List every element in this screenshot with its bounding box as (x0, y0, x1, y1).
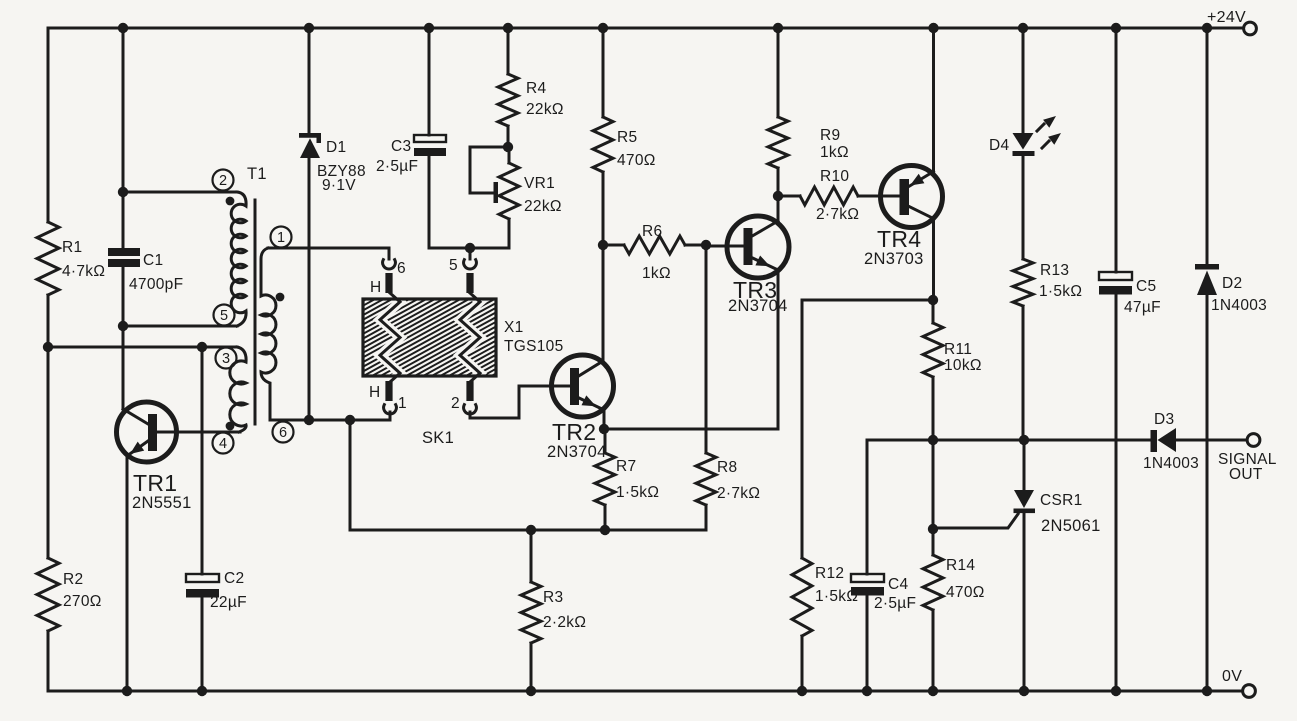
transistor TR1 (117, 402, 192, 512)
svg-text:CSR1: CSR1 (1040, 492, 1083, 509)
wire TR3 emitter (777, 270, 780, 429)
wire C4 to 0V (866, 595, 869, 691)
wire left vertical top (47, 28, 50, 222)
node C1 top rail junction (118, 23, 128, 33)
wire pin5 branch (123, 325, 237, 328)
pin label 3 (circled) (216, 348, 237, 369)
wire rail to C5 (1115, 28, 1118, 272)
svg-text:4700pF: 4700pF (129, 276, 183, 293)
node R5 rail junction (598, 23, 608, 33)
svg-text:R9: R9 (820, 127, 840, 144)
wire R5 to node (602, 172, 605, 245)
node R4-VR1 junction (503, 142, 513, 152)
phase dot winding 2-5 (226, 197, 235, 206)
node D1 rail junction (304, 23, 314, 33)
wire rail to R5 (602, 28, 605, 117)
node CSR1 anode junction (1019, 435, 1029, 445)
resistor R13 (1013, 259, 1082, 440)
wire rail to D4 (1022, 28, 1025, 134)
socket SK1 label (422, 429, 454, 447)
svg-text:OUT: OUT (1229, 466, 1263, 483)
svg-text:R1: R1 (62, 239, 82, 256)
node R7 bottom junction (600, 525, 610, 535)
capacitor C2 (186, 570, 247, 611)
wire pin1 node drop (349, 420, 352, 530)
svg-text:D4: D4 (989, 137, 1009, 154)
node sensor pin5 junction (465, 243, 475, 253)
svg-text:22kΩ: 22kΩ (524, 198, 562, 215)
svg-text:SK1: SK1 (422, 429, 454, 447)
transformer T1 core (254, 200, 257, 424)
svg-text:1·5kΩ: 1·5kΩ (616, 484, 659, 501)
node R3 rail junction (526, 686, 536, 696)
pin label 5 (circled) (214, 305, 235, 326)
node TR4 rail junction (928, 23, 938, 33)
node C3 rail junction (424, 23, 434, 33)
svg-text:TGS105: TGS105 (504, 338, 564, 355)
svg-text:2N3704: 2N3704 (547, 443, 607, 461)
resistor R2 (37, 558, 102, 631)
diode D3 (1143, 411, 1199, 472)
node CSR1 gate junction (928, 524, 938, 534)
svg-text:D2: D2 (1222, 275, 1242, 292)
node C2 branch (197, 342, 207, 352)
wire D1 to node (308, 158, 311, 420)
wire emitter bus y429 (604, 428, 778, 431)
svg-text:470Ω: 470Ω (617, 152, 656, 169)
svg-text:1kΩ: 1kΩ (642, 265, 671, 282)
wire C2 to 0V (201, 597, 204, 691)
terminal 0V (1222, 668, 1255, 697)
svg-text:R11: R11 (944, 341, 972, 358)
svg-text:1: 1 (277, 230, 285, 246)
wire R4 to VR1 node (507, 126, 510, 147)
node T1 pin2 branch (118, 187, 128, 197)
wire TR4 emitter to rail (932, 28, 935, 172)
wire C4 branch (866, 440, 869, 574)
transistor TR2 (547, 355, 614, 461)
node R9-R10 junction (773, 191, 783, 201)
node D1 bottom junction (304, 415, 314, 425)
resistor R14 (923, 529, 985, 691)
phase dot winding 1-6 (276, 293, 285, 302)
wire rail to R9 (777, 28, 780, 117)
gas sensor X1 body (hatched) (363, 228, 564, 447)
svg-text:22µF: 22µF (210, 594, 247, 611)
pin label 1 (circled) (271, 227, 292, 248)
svg-text:2·7kΩ: 2·7kΩ (717, 485, 760, 502)
wire C5 to 0V (1115, 294, 1118, 691)
wire TR3 collector (777, 196, 780, 221)
svg-text:3: 3 (222, 351, 230, 367)
wire CSR1 cathode to 0V (1023, 513, 1026, 691)
thyristor CSR1 (933, 490, 1101, 535)
wire y347 divider line (48, 346, 237, 349)
wire alarm bus y440 (867, 439, 1024, 442)
node pin1 drop junction (345, 415, 355, 425)
svg-text:1kΩ: 1kΩ (820, 144, 849, 161)
svg-text:R2: R2 (63, 571, 83, 588)
pin label 4 (circled) (213, 433, 234, 454)
node R5-R6-TR2 junction (598, 240, 608, 250)
svg-text:H: H (370, 279, 382, 296)
wire rail to C3 (428, 28, 431, 135)
node C4 rail junction (862, 686, 872, 696)
wire anode to CSR1 (1023, 440, 1026, 490)
svg-text:9·1V: 9·1V (322, 177, 356, 194)
node C5 rail bottom junction (1111, 686, 1121, 696)
svg-text:2·2kΩ: 2·2kΩ (543, 614, 586, 631)
node CSR1 rail junction (1019, 686, 1029, 696)
svg-text:R14: R14 (946, 557, 975, 574)
wire collector to R12 (802, 300, 933, 558)
wire TR2 collector (602, 245, 605, 362)
wire TR4 collector down (932, 219, 935, 301)
resistor R1 (37, 222, 105, 295)
terminal SIGNAL OUT (1218, 434, 1277, 483)
svg-text:TR4: TR4 (877, 226, 921, 252)
resistor R12 (792, 558, 858, 691)
wire node to TR1 collector (122, 326, 125, 409)
svg-text:C3: C3 (391, 138, 411, 155)
svg-text:C4: C4 (888, 576, 908, 593)
svg-text:T1: T1 (247, 165, 267, 183)
sensor pin 5 (top right) (449, 248, 476, 293)
wire sensor pin2 to TR2 base (470, 386, 571, 418)
wire D2 to 0V (1206, 295, 1209, 691)
node D4 rail junction (1018, 23, 1028, 33)
phase dot winding 3-4 (226, 422, 235, 431)
svg-text:6: 6 (279, 425, 287, 441)
svg-text:1N4003: 1N4003 (1143, 455, 1199, 472)
node C2 rail (197, 686, 207, 696)
capacitor C4 (851, 574, 916, 612)
svg-text:1·5kΩ: 1·5kΩ (1039, 283, 1082, 300)
svg-text:R5: R5 (617, 129, 637, 146)
capacitor C3 (376, 135, 446, 175)
node R1-R2 junction (43, 342, 53, 352)
resistor R9 (768, 117, 849, 196)
svg-text:R6: R6 (642, 223, 662, 240)
sensor heater element (pins 6-1) (380, 293, 400, 382)
transformer T1 secondary winding (pins 1-6) (261, 248, 276, 420)
svg-text:47µF: 47µF (1124, 299, 1161, 316)
svg-text:4: 4 (219, 436, 227, 452)
wire D4 to R13 (1022, 156, 1025, 259)
transformer T1 primary winding (pins 2-5) (231, 192, 246, 326)
wire node to D3 (1024, 439, 1151, 442)
svg-text:D1: D1 (326, 139, 346, 156)
svg-text:R8: R8 (717, 459, 737, 476)
svg-text:R4: R4 (526, 80, 546, 97)
sensor X1 border (363, 299, 496, 376)
wire divider node to C2 (201, 347, 204, 574)
svg-text:1: 1 (398, 395, 407, 412)
svg-text:10kΩ: 10kΩ (944, 357, 982, 374)
sensor pin 6 (top left) (370, 248, 406, 296)
transformer T1 label (247, 165, 267, 183)
wire left vertical mid (47, 347, 50, 558)
svg-text:TR2: TR2 (552, 419, 596, 445)
svg-text:2·5µF: 2·5µF (874, 595, 916, 612)
svg-text:R3: R3 (543, 589, 563, 606)
wire VR1 bottom (508, 219, 511, 248)
svg-text:5: 5 (449, 257, 458, 274)
wire R11 to gate node (932, 440, 935, 529)
transistor TR3 (706, 216, 789, 315)
svg-text:R7: R7 (616, 458, 636, 475)
wire C1 node to T1 pin2 (123, 191, 237, 194)
node R11 bottom junction (928, 435, 938, 445)
node D2 rail bottom junction (1202, 686, 1212, 696)
node C5 rail junction (1111, 23, 1121, 33)
wire sensor pin1/D1/T1 pin6 node (270, 419, 390, 422)
resistor R6 (603, 223, 706, 282)
resistor R10 (778, 168, 900, 223)
capacitor C1 (108, 248, 183, 293)
wire +24V top rail (48, 27, 1243, 30)
wire TR1 base to T1 pin4 (156, 431, 240, 434)
variable resistor VR1 (470, 147, 562, 219)
node TR1 emitter rail (122, 686, 132, 696)
svg-text:4·7kΩ: 4·7kΩ (62, 263, 105, 280)
svg-text:TR1: TR1 (133, 470, 177, 496)
node D2 rail junction (1202, 23, 1212, 33)
wire left vertical bottom (47, 631, 50, 691)
wire 0V bottom rail (48, 690, 1242, 693)
wire TR1 emitter to 0V (126, 456, 129, 691)
resistor R8 (605, 245, 760, 530)
zener diode D1 (299, 133, 366, 194)
svg-text:5: 5 (220, 308, 228, 324)
svg-text:H: H (369, 384, 381, 401)
svg-text:6: 6 (397, 260, 406, 277)
wire TR2 emitter (603, 410, 606, 429)
wire rail to C1 (122, 28, 125, 248)
node T1 pin5 branch (118, 321, 128, 331)
svg-text:R13: R13 (1040, 262, 1069, 279)
svg-text:R10: R10 (820, 168, 849, 185)
svg-text:C5: C5 (1136, 278, 1156, 295)
node R9 rail junction (773, 23, 783, 33)
sensor pin 1 (bottom left) (369, 381, 407, 420)
wire R1 to node (47, 295, 50, 347)
node R6-TR3 base junction (701, 240, 711, 250)
resistor R11 (923, 300, 982, 440)
terminal +24V (1207, 9, 1256, 35)
node R12 rail junction (797, 686, 807, 696)
sensor element (pins 5-2) (460, 293, 480, 382)
wire C3 to pin5 line (429, 156, 509, 248)
svg-text:1N4003: 1N4003 (1211, 297, 1267, 314)
svg-text:2: 2 (451, 395, 460, 412)
svg-text:270Ω: 270Ω (63, 593, 102, 610)
svg-text:+24V: +24V (1207, 9, 1246, 26)
wire T1 pin1 to sensor pin6 (268, 247, 389, 250)
resistor R5 (593, 117, 656, 172)
transistor TR4 (864, 166, 943, 269)
sensor pin 2 (bottom right) (451, 381, 476, 414)
node R3 top junction (526, 525, 536, 535)
svg-text:X1: X1 (504, 319, 524, 336)
svg-text:22kΩ: 22kΩ (526, 101, 564, 118)
svg-text:R12: R12 (815, 565, 844, 582)
svg-text:C1: C1 (143, 252, 163, 269)
svg-text:D3: D3 (1154, 411, 1174, 428)
svg-text:2N5551: 2N5551 (132, 494, 192, 512)
pin label 6 (circled) (273, 422, 294, 443)
transformer T1 feedback winding (pins 3-4) (230, 347, 246, 432)
wire rail to D1 (308, 28, 311, 134)
svg-text:2N5061: 2N5061 (1041, 517, 1101, 535)
wire lower bus y530 (350, 529, 706, 532)
svg-text:2·5µF: 2·5µF (376, 158, 418, 175)
pin label 2 (circled) (213, 170, 234, 191)
wire C1 to pin5 node (122, 267, 125, 326)
svg-text:VR1: VR1 (524, 175, 555, 192)
wire rail to R4 (507, 28, 510, 74)
node TR4 collector junction (928, 295, 938, 305)
node R4 rail junction (503, 23, 513, 33)
diode D2 (1195, 264, 1267, 314)
svg-text:C2: C2 (224, 570, 244, 587)
resistor R4 (498, 74, 564, 126)
svg-text:2N3703: 2N3703 (864, 250, 924, 268)
wire rail to D2 (1206, 28, 1209, 264)
svg-text:2: 2 (219, 173, 227, 189)
LED D4 (989, 116, 1061, 156)
svg-text:470Ω: 470Ω (946, 584, 985, 601)
resistor R3 (521, 530, 586, 691)
node TR2 emitter junction (599, 424, 609, 434)
wire D3 to signal out (1176, 439, 1247, 442)
svg-text:0V: 0V (1222, 668, 1242, 685)
svg-text:2·7kΩ: 2·7kΩ (816, 206, 859, 223)
node R14 rail junction (928, 686, 938, 696)
capacitor C5 (1099, 272, 1161, 316)
resistor R7 (595, 429, 659, 530)
